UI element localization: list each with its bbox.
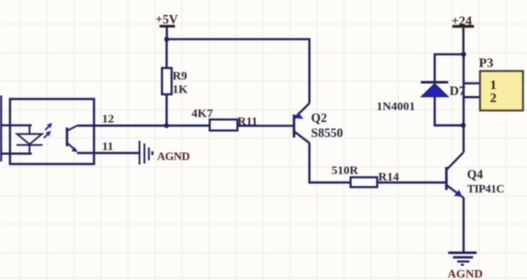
wire Q2 collector down and to R14 (309, 143, 350, 183)
ground AGND (power ground bars) (140, 141, 153, 165)
wire to diode top (435, 54, 464, 82)
svg-text:P3: P3 (479, 55, 494, 70)
resistor R14 (332, 163, 399, 187)
svg-text:S8550: S8550 (311, 126, 343, 140)
wire P3 pin1 stub (464, 82, 480, 84)
svg-text:510R: 510R (332, 163, 359, 177)
connector P3 (479, 55, 523, 110)
wire node to R11 (167, 124, 210, 126)
svg-text:1K: 1K (173, 82, 189, 96)
svg-text:2: 2 (490, 90, 497, 105)
svg-text:Q2: Q2 (311, 111, 327, 125)
wire P3 pin2 stub (464, 96, 480, 98)
wire R14 to Q4 base (377, 181, 446, 183)
wire left edge vertical (cropped) (0, 96, 2, 162)
wire +5V to R9 (166, 39, 168, 68)
wire R9 to node (166, 94, 168, 125)
phototransistor inside optocoupler (67, 125, 78, 151)
ground AGND (earth bars) (448, 253, 476, 265)
svg-text:TIP41C: TIP41C (467, 183, 504, 195)
node +5V junction (164, 37, 169, 42)
transistor Q4 (NPN TIP41C) (446, 152, 504, 198)
wire +5V rail to Q2 emitter (167, 39, 310, 103)
LED emission arrows (44, 123, 52, 138)
resistor R11 (192, 106, 258, 131)
power +5V (156, 13, 178, 40)
resistor R9 (162, 68, 189, 96)
svg-text:12: 12 (102, 111, 114, 125)
svg-text:AGND: AGND (157, 151, 190, 163)
node R9/R11 junction (164, 123, 169, 128)
node diode/collector junction (461, 123, 466, 128)
wire Q4 emitter down (463, 198, 465, 252)
wire pin12 to node (78, 124, 167, 126)
svg-text:1N4001: 1N4001 (377, 99, 416, 113)
wire opto cathode lead (0, 153, 32, 155)
wire diode bottom (435, 97, 464, 126)
svg-text:R9: R9 (173, 69, 188, 83)
wire R11 to Q2 base (237, 125, 294, 127)
svg-text:+5V: +5V (156, 13, 178, 27)
LED inside optocoupler (17, 125, 43, 153)
diode D7 (1N4001) (377, 82, 466, 113)
wire pin11 to AGND (77, 152, 139, 154)
optocoupler U box (10, 99, 94, 164)
power +24 (452, 13, 475, 55)
transistor Q2 (PNP S8550) (294, 103, 343, 143)
wire main right vertical (463, 54, 465, 125)
wire opto anode lead (0, 124, 32, 126)
svg-text:Q4: Q4 (467, 168, 484, 182)
wire Q4 collector up (463, 125, 465, 152)
svg-text:11: 11 (102, 139, 113, 153)
svg-text:AGND: AGND (448, 267, 484, 280)
svg-text:D7: D7 (450, 83, 466, 98)
svg-text:4K7: 4K7 (192, 106, 213, 120)
node +24 junction (461, 52, 466, 57)
